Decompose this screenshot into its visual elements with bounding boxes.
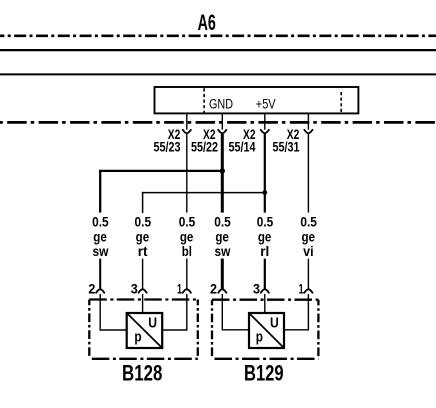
svg-text:2: 2	[210, 281, 217, 297]
wire label 0.5 ge bl (B128 pin 1)	[179, 214, 196, 259]
pin 1 of B129 (socket symbol)	[304, 289, 312, 293]
svg-text:ge: ge	[136, 228, 150, 244]
wire: B129 pin 1 into sensor (horizontal)	[284, 329, 308, 331]
svg-text:1: 1	[177, 281, 182, 297]
svg-text:sw: sw	[215, 243, 231, 259]
wire: B128 pin 3 into sensor	[142, 294, 144, 313]
svg-text:ge: ge	[215, 228, 229, 244]
wire label 0.5 ge sw (B129 pin 2)	[214, 214, 231, 259]
wire: 55/31 down to B129 pin 1 (upper segment)	[307, 134, 309, 213]
wire: lower segment to B128 pin 1	[186, 259, 188, 289]
svg-text:55/23: 55/23	[154, 138, 181, 154]
svg-text:3: 3	[253, 281, 260, 297]
wire label 0.5 ge rl (B129 pin 3)	[257, 214, 274, 259]
svg-text:sw: sw	[92, 243, 108, 259]
wire: 55/14 down (upper segment)	[264, 134, 266, 213]
svg-text:U: U	[270, 315, 279, 332]
internal partition (dashed, left)	[203, 88, 205, 113]
connector X2 pin 55/31 (socket symbol)	[304, 130, 312, 134]
wire label 0.5 ge rt (B128 pin 3)	[135, 214, 152, 259]
pin 3 of B129 (socket symbol)	[261, 289, 269, 293]
wire: dash-dot boundary line (A6 bottom)	[0, 121, 436, 124]
wire: branch to B128 pin 2 (horizontal)	[99, 170, 222, 172]
connector X2 pin 55/23 (socket symbol)	[183, 130, 191, 134]
junction node on 55/22 wire	[220, 168, 225, 173]
pressure sensor B129 boundary (dash-dot box)	[212, 300, 318, 359]
svg-text:B128: B128	[122, 361, 162, 386]
wire: B128 pin 2 into sensor (vertical)	[99, 294, 101, 331]
wire: B129 pin 3 into sensor	[264, 294, 266, 313]
wire: lower segment to B129 pin 3	[264, 259, 266, 289]
svg-text:p: p	[256, 328, 263, 345]
wire label 0.5 ge vi (B129 pin 1)	[300, 214, 317, 259]
wire: lower segment to B129 pin 1	[307, 259, 309, 289]
wire: B129 pin 1 into sensor (vertical)	[307, 294, 309, 331]
wire: stub from A6 to connector X2 55/23	[186, 113, 188, 129]
svg-text:0.5: 0.5	[300, 214, 317, 230]
pressure sensor B128 boundary (dash-dot box)	[89, 300, 198, 359]
svg-text:55/14: 55/14	[229, 138, 256, 154]
svg-text:2: 2	[88, 281, 95, 297]
pin 1 of B128 (socket symbol)	[183, 289, 191, 293]
svg-text:vi: vi	[303, 243, 314, 259]
wire: B129 pin 2 into sensor (horizontal)	[222, 329, 249, 331]
connector X2 pin 55/14 (socket symbol)	[261, 130, 269, 134]
svg-text:ge: ge	[180, 228, 194, 244]
svg-text:3: 3	[131, 281, 138, 297]
wire: stub from A6 to connector X2 55/22	[221, 113, 223, 129]
wire: bus bar line 2	[0, 73, 436, 75]
svg-text:p: p	[134, 328, 141, 345]
pin 2 of B128 (socket symbol)	[96, 289, 104, 293]
wire: B128 pin 2 into sensor (horizontal)	[100, 329, 127, 331]
wire: stub from A6 to connector X2 55/14	[264, 113, 266, 129]
svg-text:+5V: +5V	[256, 97, 276, 112]
svg-text:B129: B129	[244, 361, 284, 386]
junction node on 55/14 wire	[262, 190, 267, 195]
svg-text:GND: GND	[209, 97, 233, 112]
wire: branch to B128 pin 3 (horizontal)	[142, 192, 265, 194]
svg-text:bl: bl	[182, 243, 192, 259]
pin 3 of B128 (socket symbol)	[139, 289, 147, 293]
pin 2 of B129 (socket symbol)	[218, 289, 226, 293]
svg-text:rt: rt	[138, 243, 148, 259]
wire: lower segment to B128 pin 3	[142, 259, 144, 289]
svg-text:55/22: 55/22	[191, 138, 218, 154]
svg-text:0.5: 0.5	[135, 214, 152, 230]
wire: B128 pin 1 into sensor (horizontal)	[162, 329, 187, 331]
wire: bus bar line 1	[0, 49, 436, 51]
svg-text:0.5: 0.5	[214, 214, 231, 230]
svg-text:ge: ge	[301, 228, 315, 244]
svg-text:ge: ge	[93, 228, 107, 244]
wire: branch to B128 pin 3 (vertical)	[142, 192, 144, 213]
svg-text:U: U	[148, 315, 157, 332]
pressure sensor symbol B129 (p/U transducer square)	[249, 313, 284, 348]
wire label 0.5 ge sw (B128 pin 2)	[92, 214, 109, 259]
wire: 55/22 down (thick, upper segment)	[221, 134, 224, 213]
svg-text:1: 1	[299, 281, 304, 297]
svg-text:0.5: 0.5	[92, 214, 109, 230]
wire: 55/23 down to B128 pin 1 (upper segment)	[186, 134, 188, 213]
svg-text:0.5: 0.5	[257, 214, 274, 230]
svg-text:ge: ge	[258, 228, 272, 244]
internal partition (dashed, right)	[340, 92, 342, 113]
svg-text:A6: A6	[198, 10, 216, 35]
wire: B129 pin 2 into sensor (vertical)	[221, 294, 223, 331]
svg-text:55/31: 55/31	[273, 138, 300, 154]
wire: lower segment to B129 pin 2 (thick)	[221, 259, 224, 289]
wire: lower segment to B128 pin 2	[99, 259, 101, 289]
connector X2 pin 55/22 (socket symbol)	[218, 130, 226, 134]
svg-text:0.5: 0.5	[179, 214, 196, 230]
wire: branch to B128 pin 2 (vertical)	[99, 170, 101, 213]
connector block frame on A6	[155, 87, 359, 113]
pressure sensor symbol B128 (p/U transducer square)	[127, 313, 163, 348]
wire: B128 pin 1 into sensor (vertical)	[186, 294, 188, 331]
svg-text:rl: rl	[260, 243, 269, 259]
wire: stub from A6 to connector X2 55/31	[307, 113, 309, 129]
wire: shield dash-dot boundary line (top)	[0, 34, 436, 37]
